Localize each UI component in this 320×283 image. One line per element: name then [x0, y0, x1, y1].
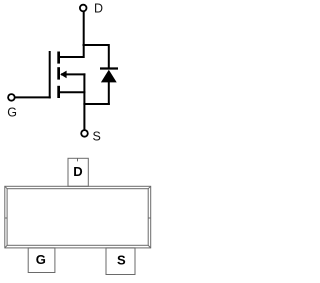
- svg-text:G: G: [7, 106, 17, 120]
- diode D1 anode triangle: [101, 70, 117, 83]
- wire source vertical: [83, 73, 85, 130]
- wire gate horizontal: [15, 96, 51, 98]
- pin G lead outline: [28, 248, 55, 273]
- MOSFET Q1 body channel bar: [57, 67, 60, 79]
- pin D lead outline: [68, 158, 88, 186]
- svg-text:S: S: [93, 129, 101, 143]
- package body inner outline: [7, 189, 148, 246]
- svg-text:D: D: [73, 164, 82, 179]
- wire body arrow horizontal: [61, 73, 85, 75]
- MOSFET Q1 gate line: [49, 51, 51, 98]
- wire diode bottom horizontal: [83, 103, 109, 105]
- package corner bevel top-left: [5, 186, 7, 188]
- wire source horizontal: [59, 91, 85, 93]
- wire drain horizontal to MOSFET: [59, 56, 85, 58]
- diode D1 cathode bar: [100, 67, 118, 69]
- package left edge tick: [5, 217, 7, 219]
- MOSFET Q1 source channel bar: [57, 86, 60, 98]
- svg-text:D: D: [94, 2, 103, 16]
- wire diode vertical upper: [108, 44, 110, 69]
- svg-text:G: G: [36, 252, 46, 267]
- terminal S circle: [81, 130, 88, 137]
- wire diode vertical lower: [108, 82, 110, 105]
- package body outer outline: [5, 186, 151, 248]
- terminal G circle: [8, 94, 15, 101]
- svg-text:S: S: [117, 252, 126, 267]
- package corner bevel bottom-left: [5, 245, 7, 248]
- MOSFET Q1 body arrow head: [60, 71, 66, 79]
- package corner bevel top-right: [148, 186, 151, 188]
- package corner bevel bottom-right: [148, 245, 151, 248]
- package right edge tick: [148, 217, 151, 219]
- pin D top tick: [77, 158, 79, 161]
- wire drain vertical: [83, 11, 85, 58]
- MOSFET Q1 drain channel bar: [57, 52, 60, 64]
- wire diode top horizontal: [83, 44, 109, 46]
- terminal D circle: [80, 5, 87, 12]
- pin S lead outline: [106, 248, 135, 275]
